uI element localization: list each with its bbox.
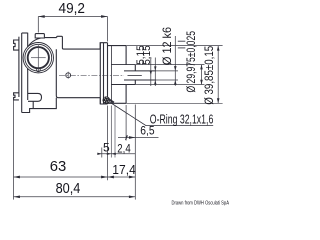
dim O29,975 line <box>201 65 203 85</box>
arrow 17,4 right <box>129 176 135 179</box>
dim 63 / 80,4 extension far-left <box>13 100 15 200</box>
port circle inner thick <box>28 47 49 68</box>
head right step to ring <box>100 43 107 49</box>
shaft top <box>124 70 156 72</box>
dim 5,15 line b <box>154 58 156 87</box>
spigot face lower <box>134 80 136 85</box>
cylinder end face upper <box>125 46 127 65</box>
svg-text:5,15: 5,15 <box>141 45 153 65</box>
svg-text:17,4: 17,4 <box>112 162 136 177</box>
o-ring section blob <box>103 96 111 103</box>
tolerance dash upper <box>178 40 186 42</box>
mounting flange plate left <box>19 33 28 113</box>
port centerline horizontal <box>31 57 46 59</box>
arrow 80,4 right <box>129 195 135 198</box>
arrow 5 left <box>97 153 102 155</box>
svg-text:49,2: 49,2 <box>59 1 86 17</box>
arrow 49,2 left <box>38 15 44 18</box>
arrow 5,15a <box>150 71 152 76</box>
cylinder end face lower <box>125 85 127 104</box>
slot keyhole in foot <box>28 93 42 101</box>
leader line o-ring <box>110 102 214 126</box>
tolerance dash lower <box>178 47 186 49</box>
svg-text:5: 5 <box>103 140 110 154</box>
cap on top of port <box>35 34 44 38</box>
dim 49,2 extension left <box>37 17 39 33</box>
dim 5,15 line a <box>150 58 152 87</box>
foot bottom outline <box>22 98 57 113</box>
svg-text:Ø 12 k6: Ø 12 k6 <box>160 27 174 65</box>
arrow 63 right <box>101 176 107 179</box>
dim O39,85 extension top <box>126 45 223 47</box>
ring flange right face <box>107 43 109 104</box>
spigot face upper <box>134 65 136 71</box>
svg-text:O-Ring 32,1x1,6: O-Ring 32,1x1,6 <box>150 111 214 126</box>
wire centerline horizontal main <box>59 74 124 76</box>
drain screw cross v <box>67 72 69 79</box>
spigot top line <box>111 64 135 66</box>
dim 49,2 extension right <box>107 17 109 42</box>
head bottom edge <box>56 49 100 97</box>
cover screw bottom <box>36 68 40 72</box>
arrow 2,4 <box>111 153 116 155</box>
arrow 80,4 left <box>14 195 20 198</box>
arrow O12 bottom outside <box>174 80 177 85</box>
dim 63 line <box>14 176 108 178</box>
clip upper left <box>14 40 19 50</box>
dim 2,4 extension b <box>114 106 116 158</box>
o-ring hatch speckle <box>104 97 109 103</box>
keyway bottom line <box>128 74 142 76</box>
svg-text:63: 63 <box>50 159 67 175</box>
dimension texts <box>50 1 216 197</box>
dim O12 extension bottom <box>156 79 178 81</box>
dim 49,2 line <box>38 16 107 18</box>
dim 2,4 extension <box>110 106 112 158</box>
dim O29,975 extension top <box>135 64 204 66</box>
port circle second <box>25 44 52 71</box>
arrow O39,85 top <box>217 46 220 51</box>
dim 6,5 extension left <box>125 105 127 141</box>
dim O39,85 extension bottom <box>126 102 223 104</box>
dim O29,975 extension bottom <box>135 84 204 86</box>
arrow 17,4 left <box>108 176 114 179</box>
dim 5 / 2,4 line <box>99 153 135 155</box>
clip lower left <box>14 93 19 100</box>
dim 63 extension right <box>107 106 109 181</box>
head bottom-right step / ring bottom <box>100 98 107 104</box>
spigot bottom line <box>111 84 135 86</box>
dim 17,4 extension right <box>134 105 136 200</box>
dim 6,5 line <box>118 137 159 139</box>
arrow 6,5 right <box>129 136 135 139</box>
arrow 5,15b bottom <box>154 80 156 85</box>
arrow 49,2 right <box>101 15 107 18</box>
arrow O12 top outside <box>174 66 177 71</box>
arrow 63 left <box>14 176 20 179</box>
port circle outer <box>23 43 53 73</box>
shaft bottom <box>124 79 156 81</box>
pump head housing boss arc <box>28 38 57 70</box>
leader stub thick <box>108 99 114 103</box>
head top boss <box>57 36 100 49</box>
bearing cylinder bottom <box>108 102 127 104</box>
bearing cylinder top <box>108 45 127 47</box>
ring flange inner line <box>103 43 105 104</box>
svg-text:2,4: 2,4 <box>117 141 131 155</box>
dim O12 extension top <box>156 70 178 72</box>
svg-text:Drawn from DWH Osculati SpA: Drawn from DWH Osculati SpA <box>172 200 230 206</box>
arrow O29,975 bottom <box>200 80 203 85</box>
tick 6,5 left <box>125 135 128 140</box>
svg-text:Ø 29,975±0,025: Ø 29,975±0,025 <box>186 31 198 93</box>
foot slot riser <box>32 101 34 108</box>
drain screw circle <box>66 73 71 78</box>
arrow 5 right <box>107 153 112 155</box>
ring flange left face <box>99 43 101 104</box>
arrowheads <box>14 15 220 198</box>
dimension graphics <box>14 17 223 200</box>
port centerline vertical <box>37 45 39 71</box>
seal plate line in cylinder <box>111 46 113 104</box>
svg-text:80,4: 80,4 <box>56 181 81 197</box>
arrow 5,15b top <box>154 66 156 71</box>
dim 5 extension <box>101 148 103 158</box>
arrow O39,85 bottom <box>217 98 220 103</box>
arrow O29,975 top <box>200 65 203 70</box>
dim O12 line <box>174 36 176 86</box>
dim 17,4 line <box>108 176 136 178</box>
svg-text:Ø 39,85±0,15: Ø 39,85±0,15 <box>204 46 216 105</box>
dim 80,4 line <box>14 196 136 198</box>
dim O39,85 line <box>217 46 219 104</box>
